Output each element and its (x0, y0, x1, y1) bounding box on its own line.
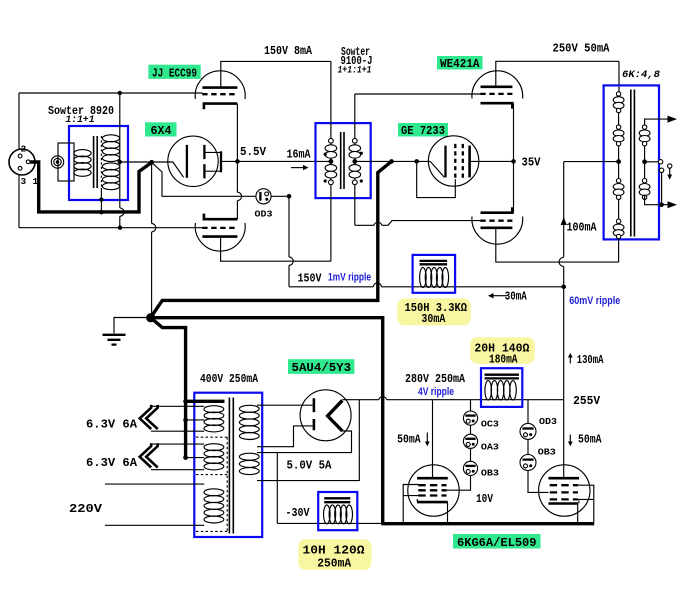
regulator chain right wire (528, 400, 548, 493)
wire left vertical (18, 93, 20, 228)
T2 primary spine (330, 61, 332, 261)
V6 grids dashes (418, 485, 446, 495)
V5 plate (328, 400, 343, 431)
svg-text:5AU4/5Y3: 5AU4/5Y3 (292, 361, 352, 375)
tube V4a WE421A upper arc (472, 71, 523, 99)
svg-text:35V: 35V (522, 156, 542, 170)
tube V2 6X4 envelope (168, 136, 218, 186)
V4b grid (480, 220, 512, 222)
ground blob star node (146, 313, 155, 322)
wire secondary CT out (355, 160, 430, 162)
label 10H 120 ohm (298, 539, 371, 570)
T1 secondary winding (102, 135, 119, 190)
label 6KG6A/EL509 (453, 534, 541, 549)
V6 cathode (417, 501, 448, 504)
V4b cathode (481, 207, 513, 212)
L1 box (413, 255, 456, 293)
label JJ ECC99 (148, 65, 200, 79)
V2 plates (203, 145, 205, 179)
svg-text:OC3: OC3 (481, 418, 499, 429)
svg-text:OB3: OB3 (538, 447, 556, 458)
T4 winding 5V (239, 405, 259, 439)
T1 core (94, 136, 98, 188)
regulator OB3 (463, 461, 477, 475)
transformer T4 power box (194, 393, 262, 537)
L3 core (324, 498, 350, 502)
L2 core (485, 375, 519, 379)
svg-text:250V 50mA: 250V 50mA (553, 42, 611, 56)
tube V7 6KG6A right envelope (539, 465, 590, 516)
wire thick shield ground (186, 400, 225, 403)
transformer T2 Sowter 9100-J box (316, 123, 371, 198)
connector XLR J1 (9, 149, 35, 175)
wire V3 plate to 35V node (470, 160, 514, 162)
wire 280V rail with hop at 382.7 (342, 397, 563, 400)
label 150H 3.3K (397, 298, 471, 325)
wire secondary CT to node (120, 161, 152, 163)
wire lower plate to bias top (257, 431, 352, 453)
V6 plate (417, 477, 448, 480)
V7 cathode (548, 502, 578, 505)
svg-text:130mA: 130mA (577, 353, 604, 367)
wire filament top to 5V winding (257, 404, 313, 406)
L2 box (481, 368, 522, 407)
svg-text:5.5V: 5.5V (240, 145, 267, 159)
wire V2 output to interstage CT (221, 160, 331, 162)
label WE421A (437, 56, 483, 70)
label GE 7233 (398, 123, 448, 137)
T1 shield dashed (100, 136, 102, 188)
tube V4b WE421A lower arc (472, 217, 523, 245)
svg-text:30mA: 30mA (421, 312, 446, 326)
svg-text:400V 250mA: 400V 250mA (200, 372, 259, 386)
svg-text:6X4: 6X4 (151, 124, 172, 138)
svg-text:GE 7233: GE 7233 (401, 124, 445, 138)
wire T3 CT left and down 100mA (564, 161, 619, 163)
V1a grid (202, 93, 237, 95)
V4b plate lead to OPT bottom (496, 228, 619, 262)
T2 primary coils (325, 138, 337, 184)
heater chevron 1 (140, 405, 158, 429)
wire thick bottom bus (381, 522, 594, 525)
V4a plate lead + 250V rail (496, 61, 619, 87)
svg-text:4V ripple: 4V ripple (418, 386, 454, 398)
arrow up 100mA (561, 217, 567, 225)
wire cathodes to 35V (513, 103, 515, 212)
wire bottom grid rail y=227.7 (19, 227, 202, 229)
svg-text:6KG6A/EL509: 6KG6A/EL509 (457, 536, 537, 550)
svg-text:1+1:1+1: 1+1:1+1 (338, 64, 372, 76)
regulator OA3 (463, 434, 477, 448)
label 20H 140 ohm (470, 337, 535, 364)
V3 plate (468, 146, 471, 178)
V1a cathode (204, 104, 237, 110)
V1a plate lead + 150V rail (221, 61, 331, 87)
svg-text:6K:4,8: 6K:4,8 (622, 69, 661, 81)
svg-text:OA3: OA3 (481, 442, 499, 453)
V1b plate (202, 235, 237, 238)
T2 secondary coils (349, 138, 361, 184)
svg-text:250mA: 250mA (317, 556, 352, 570)
svg-text:50mA: 50mA (397, 432, 421, 446)
V7 grids dashes (550, 485, 578, 499)
regulator OD3 right (520, 423, 536, 439)
svg-text:255V: 255V (573, 394, 601, 408)
T4 winding 6.3V no2 (204, 444, 224, 470)
wire filament bottom jog (257, 426, 313, 447)
svg-text:150V 8mA: 150V 8mA (264, 44, 313, 58)
T3 core (631, 90, 635, 237)
wire left plate feed (432, 400, 434, 478)
svg-text:2: 2 (21, 144, 27, 155)
V1b plate lead to 150V node (221, 237, 331, 262)
wire top grid rail y=93 (19, 92, 202, 94)
svg-text:50mA: 50mA (578, 433, 602, 447)
regulator OB3 right (520, 455, 536, 471)
wire 250V rail corner into OPT (618, 61, 620, 91)
transformer T1 Sowter 8920 box (69, 126, 128, 200)
T4 winding 6.3V no1 (204, 406, 224, 432)
svg-text:OB3: OB3 (481, 467, 499, 478)
tube V1a ECC99 upper arc (195, 71, 245, 99)
wire 100mA vertical with hop at 262.1 (559, 162, 564, 400)
arrow 30mA (492, 295, 507, 297)
label 6X4 (145, 122, 177, 136)
L3 box (318, 492, 357, 530)
svg-text:30mA: 30mA (505, 290, 528, 304)
V3 cathode (430, 161, 444, 177)
V4a plate (481, 86, 513, 89)
wire secondary top to upper grid (355, 93, 481, 95)
T3 secondary spine (644, 125, 646, 195)
selector 4/8 ohm (645, 161, 659, 163)
svg-text:6.3V 6A: 6.3V 6A (86, 418, 138, 432)
wire secondary bottom tap arrow (645, 195, 668, 205)
V3 loop to grid (417, 161, 456, 197)
regulator OD3 input (152, 162, 256, 196)
V1b grid (202, 227, 237, 229)
transformer T3 output 6K:4,8 box (604, 85, 659, 239)
wire 220V stubs (105, 484, 204, 525)
text 130mA (569, 356, 571, 364)
wire thick XLR ground path (30, 162, 152, 212)
svg-text:1:1+1: 1:1+1 (66, 114, 95, 126)
tube V1b ECC99 lower arc (195, 223, 245, 251)
svg-text:180mA: 180mA (489, 352, 518, 366)
jack input (58, 143, 74, 181)
regulator chain left wire (446, 400, 470, 491)
node input star (149, 160, 154, 165)
wire ground tap thick to blob (151, 161, 392, 317)
V3 grids (455, 144, 463, 179)
svg-text:220V: 220V (69, 502, 103, 516)
T1 primary winding (74, 150, 91, 177)
V5 filament (313, 398, 316, 430)
choke L1 150H coil (420, 268, 449, 288)
wire 150V line to choke with hop at 377.3 (289, 283, 564, 287)
wire -30V vertical (276, 453, 278, 524)
svg-text:3: 3 (21, 176, 27, 187)
T3 primary coils (613, 92, 624, 239)
V2 cathode (152, 162, 184, 177)
T3 primary spine (618, 92, 620, 262)
T2 secondary spine (354, 94, 356, 225)
svg-text:6.3V 6A: 6.3V 6A (86, 456, 138, 470)
svg-text:16mA: 16mA (287, 148, 312, 162)
T3 secondary coils (639, 125, 650, 200)
choke L3 10H coil (324, 505, 353, 524)
text 50mA right (569, 435, 571, 444)
wire heater leads (151, 406, 204, 469)
V7 beam bracket (578, 485, 594, 522)
V6 beam bracket (403, 485, 418, 520)
L1 core (420, 261, 448, 264)
svg-text:5.0V 5A: 5.0V 5A (287, 458, 333, 472)
svg-text:10H 120Ω: 10H 120Ω (303, 543, 365, 557)
ground symbol (103, 335, 126, 345)
tube V3 GE7233 envelope (428, 136, 478, 186)
svg-text:-30V: -30V (286, 506, 311, 520)
wire thick ground rail to x377 (151, 318, 383, 524)
T4 shield dashes (196, 437, 228, 531)
svg-text:OD3: OD3 (255, 209, 273, 220)
wire 150V dropper vertical with hop at 261.2 (289, 196, 293, 286)
svg-text:1mV ripple: 1mV ripple (328, 272, 371, 284)
wire secondary top tap arrow (645, 119, 668, 125)
wire cathode bus x=237.4 with hop at 196.3 (237, 104, 241, 220)
wire secondary spine with hop over thick line (120, 93, 124, 228)
svg-text:10V: 10V (476, 492, 494, 506)
T4 winding 220V (204, 489, 224, 523)
wire OD3 to 150V node (271, 195, 289, 197)
label 5AU4/5Y3 (288, 359, 354, 374)
T4 winding bias (239, 453, 259, 474)
regulator OC3 (463, 411, 477, 425)
svg-text:OD3: OD3 (539, 416, 557, 427)
svg-text:60mV ripple: 60mV ripple (569, 295, 620, 307)
wire shield to ground (100, 188, 102, 212)
tube V6 6KG6A left envelope (408, 465, 459, 516)
svg-text:JJ ECC99: JJ ECC99 (152, 67, 197, 81)
wire node down to ground blob with hop (152, 162, 156, 314)
V1b cathode (204, 214, 237, 220)
svg-text:WE421A: WE421A (440, 57, 480, 71)
tube V5 5AU4 envelope (300, 390, 351, 441)
V4a cathode (481, 103, 513, 108)
arrow 16mA (291, 167, 305, 169)
V4a grid (480, 93, 512, 95)
svg-text:100mA: 100mA (567, 220, 598, 234)
wire bias bottom to rail (257, 400, 359, 481)
T2 core (341, 132, 344, 189)
wire secondary bottom to lower grid with hop (355, 221, 481, 226)
wire -30V line through 10H choke (277, 522, 383, 524)
T4 core (229, 398, 233, 534)
V7 plate (548, 477, 579, 480)
heater chevron 2 (140, 443, 158, 467)
svg-text:280V 250mA: 280V 250mA (405, 372, 466, 386)
V4b plate (481, 227, 513, 230)
choke L2 20H coil (485, 381, 516, 400)
svg-text:150V: 150V (298, 271, 323, 285)
V1a plate (202, 86, 237, 89)
wire blob to ground symbol (114, 318, 151, 334)
wire thick ground to transformer (151, 318, 186, 458)
wire right plate feed (563, 400, 565, 479)
